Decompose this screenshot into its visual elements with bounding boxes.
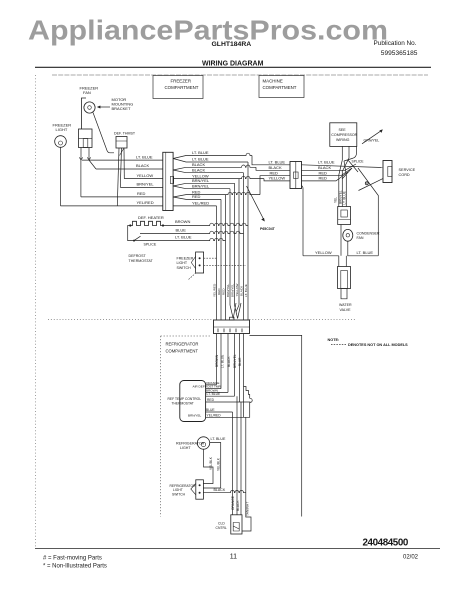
wire BLACK to splice knot: [302, 164, 357, 170]
svg-text:BLACK: BLACK: [214, 488, 226, 492]
motor mounting bracket label: [112, 97, 134, 111]
wire RED lower to splice knot: [302, 172, 349, 181]
lower vertical wire BLACK: [227, 334, 231, 393]
cold control drop wire ORANGE: [231, 412, 235, 515]
svg-text:DEF. THMST: DEF. THMST: [114, 131, 136, 135]
freezer light switch dashed wire lower: [204, 264, 246, 266]
svg-text:YEL/RED: YEL/RED: [192, 200, 209, 205]
thermostat pin wire ORANGE: [206, 381, 220, 385]
lower vertical wire YEL/RED: [243, 334, 245, 418]
svg-text:BRACKET: BRACKET: [112, 106, 131, 111]
wire row YELLOW left: [124, 173, 163, 179]
svg-text:WIRING: WIRING: [336, 138, 350, 142]
machine connector J2: [290, 162, 302, 189]
svg-text:FAN: FAN: [83, 90, 91, 95]
water valve body: [338, 267, 351, 289]
publication number: [374, 40, 418, 57]
svg-text:RED: RED: [222, 288, 226, 295]
defrost thermostat body: [116, 137, 127, 149]
svg-text:YEL/BLK: YEL/BLK: [216, 457, 220, 471]
freezer fan lead wire 2: [87, 148, 96, 170]
svg-text:LT. BLUE: LT. BLUE: [175, 235, 192, 240]
cold control label: [216, 522, 227, 531]
refrigerator light wire bottom: [203, 449, 213, 483]
harness vertical wire 4 BRN/YEL: [229, 189, 231, 305]
machine box chamfer diagonal: [358, 168, 378, 256]
wire BLACK from light switch: [203, 488, 245, 493]
harness wire labels above connector: [212, 283, 248, 297]
left border dotted: [35, 75, 37, 548]
refrigerator light lamp: [197, 437, 209, 449]
fanout wire YEL/RED: [173, 200, 216, 206]
svg-text:CONDENSER: CONDENSER: [357, 232, 380, 236]
svg-text:COMPARTMENT: COMPARTMENT: [165, 85, 199, 90]
svg-text:BROWN: BROWN: [215, 354, 219, 367]
wire RED to splice knot: [302, 168, 353, 176]
refrigerator compartment dashed border vertical: [160, 336, 162, 517]
junction arrows into lower connector: [230, 303, 241, 319]
model number GLHT184RA: [212, 41, 252, 48]
svg-text:BRN/YEL: BRN/YEL: [137, 182, 155, 187]
svg-text:LIGHT: LIGHT: [173, 488, 183, 492]
wire row BRN/YEL left: [120, 182, 163, 188]
svg-text:FREEZER: FREEZER: [171, 78, 192, 83]
defrost thermostat label: [114, 131, 136, 135]
staircase wire BLACK to machine connector: [256, 167, 290, 170]
svg-text:BLACK: BLACK: [269, 165, 282, 170]
motor mounting bracket arrow: [97, 106, 110, 109]
freezer light label: [53, 123, 72, 133]
svg-text:REFRIGERATOR: REFRIGERATOR: [166, 342, 199, 347]
condenser fan motor: [343, 229, 353, 241]
footer legend: [43, 556, 107, 570]
freezer light switch dashed tail: [189, 273, 197, 280]
ground symbol dot: [365, 182, 368, 185]
svg-text:BRN/YEL: BRN/YEL: [231, 283, 235, 297]
cold control body: [231, 515, 242, 534]
relay wire BRN/YEL: [338, 172, 342, 207]
wire BLUE: [140, 227, 244, 233]
thermostat pin wire RED2: [206, 398, 251, 402]
fan to bottom wire: [347, 241, 349, 256]
lower vertical wire BLUE: [238, 334, 242, 403]
svg-text:LT. BLUE: LT. BLUE: [357, 250, 374, 255]
svg-text:# = Fast-moving Parts: # = Fast-moving Parts: [43, 556, 102, 562]
svg-text:ORANGE: ORANGE: [231, 496, 235, 510]
wire LT.BLUE to service cord: [302, 165, 384, 168]
svg-text:AppliancePartsPros.com: AppliancePartsPros.com: [28, 15, 388, 46]
svg-text:02/02: 02/02: [403, 555, 419, 561]
refrigerator light wire right: [203, 443, 220, 489]
fanout pair RED: [173, 189, 260, 199]
defrost thermostat lower label: [129, 254, 154, 263]
title rule: [35, 66, 431, 68]
thermostat pin wire LT.BLUE2: [206, 392, 235, 396]
svg-text:BRN/YEL: BRN/YEL: [226, 283, 230, 297]
fanout pair LT.BLUE: [173, 150, 252, 162]
water valve stem: [341, 289, 347, 299]
svg-text:BRN/YEL: BRN/YEL: [233, 354, 237, 368]
svg-text:VALVE: VALVE: [340, 308, 352, 312]
wire row YEL/RED left: [61, 200, 163, 206]
svg-text:CNTRL: CNTRL: [216, 526, 227, 530]
thermostat pin wire BLUE2: [206, 408, 233, 412]
svg-text:RED: RED: [207, 398, 215, 402]
svg-text:BLUE: BLUE: [238, 358, 242, 366]
staircase wire RED to machine connector: [260, 176, 290, 195]
defrost thermostat lead to BRN/YEL row: [120, 148, 121, 187]
service cord label: [399, 168, 416, 177]
service cord lower diagonal wire: [359, 179, 384, 191]
svg-text:LIGHT: LIGHT: [56, 127, 68, 132]
svg-text:240484500: 240484500: [363, 538, 409, 549]
wire row LT.BLUE left: [82, 154, 163, 160]
svg-text:FAN: FAN: [357, 236, 364, 240]
footer part number 240484500: [363, 538, 409, 549]
freezer light switch label: [177, 256, 194, 270]
fanout pair BRN/YEL: [173, 178, 234, 189]
note text: [328, 338, 409, 347]
svg-text:SPLICE: SPLICE: [352, 160, 365, 164]
footer page number 11: [230, 554, 237, 561]
refrigerator compartment dashed border top: [161, 335, 210, 337]
lower vertical wire BRN/YEL: [233, 334, 237, 397]
svg-text:REFRIGERATOR: REFRIGERATOR: [176, 442, 205, 446]
svg-text:Publication No.: Publication No.: [374, 40, 417, 47]
callout arrow: [247, 186, 265, 222]
svg-text:LT. BLUE: LT. BLUE: [318, 159, 335, 164]
machine box bottom wire left YELLOW: [303, 250, 339, 256]
footer date 02/02: [403, 555, 419, 561]
svg-text:BLACK: BLACK: [236, 500, 240, 511]
svg-text:LT. BLUE: LT. BLUE: [192, 150, 209, 155]
service cord plug: [383, 161, 392, 183]
svg-text:YEL/BLK: YEL/BLK: [209, 456, 213, 470]
lower vertical wire LT.BLUE: [220, 334, 224, 389]
defrost heater left leg wire: [128, 226, 131, 241]
relay to fan wire: [340, 225, 342, 256]
compressor relay overload: [338, 207, 351, 225]
refrigerator light LT.BLUE label: [211, 437, 227, 441]
splice switch: [133, 236, 141, 241]
compartment separator dotted line left: [48, 319, 214, 321]
svg-text:YELLOW: YELLOW: [315, 250, 332, 255]
harness vertical wire 2 RED: [220, 199, 222, 320]
harness vertical wire 5 BRN/YEL: [234, 183, 236, 305]
svg-text:LT. BLUE: LT. BLUE: [136, 154, 153, 159]
title WIRING DIAGRAM: [202, 60, 264, 67]
harness vertical wire 8 LT.BLUE: [247, 162, 249, 320]
thermostat pin wire YEL/RED2: [188, 413, 246, 417]
splice knot crossing wires: [342, 160, 358, 179]
svg-text:RED: RED: [217, 288, 221, 295]
watermark AppliancePartsPros.com: [28, 15, 388, 46]
svg-text:DEF. HEATER: DEF. HEATER: [138, 215, 164, 220]
bottom footer rule: [35, 548, 440, 550]
svg-text:LT. BLUE: LT. BLUE: [244, 284, 248, 297]
refrigerator compartment label: [166, 342, 199, 354]
freezer fan lead wire to LT.BLUE row: [79, 148, 82, 197]
svg-text:BRN/YEL: BRN/YEL: [192, 184, 210, 189]
svg-text:LT. BLUE: LT. BLUE: [207, 392, 221, 396]
svg-text:FREEZER: FREEZER: [177, 256, 194, 260]
svg-text:RED: RED: [137, 191, 146, 196]
top border dashed: [52, 74, 428, 76]
svg-text:LT. BLUE: LT. BLUE: [192, 157, 209, 162]
svg-text:YELLOW: YELLOW: [137, 173, 154, 178]
staircase wire YELLOW to machine connector: [264, 179, 290, 181]
svg-text:GRN/YEL: GRN/YEL: [364, 138, 380, 142]
freezer light switch dashed wire upper: [204, 257, 217, 259]
relay wire LT.BLUE: [343, 175, 347, 207]
svg-text:WIRING DIAGRAM: WIRING DIAGRAM: [202, 60, 264, 67]
freezer light wire down to YEL/RED row: [60, 147, 62, 206]
cold control drop wire TAN/WHT: [242, 417, 251, 531]
main harness connector J1: [163, 152, 174, 210]
svg-text:11: 11: [230, 554, 237, 561]
cold control drop wire BRN/YEL2: [240, 402, 242, 515]
harness vertical wire 1 YEL/RED: [216, 206, 218, 320]
svg-text:5995365185: 5995365185: [381, 50, 418, 57]
ref thermostat box: [180, 381, 206, 422]
cold control drop wire BLACK: [236, 396, 240, 515]
svg-text:DEFROST: DEFROST: [129, 254, 147, 258]
svg-text:YEL/RED: YEL/RED: [212, 283, 216, 297]
lower harness connector J3: [214, 317, 250, 333]
svg-text:REF TEMP CONTROL: REF TEMP CONTROL: [168, 397, 202, 401]
svg-text:LT. BLUE: LT. BLUE: [211, 437, 227, 441]
machine connector labels left: [269, 159, 286, 180]
machine box left wire: [302, 186, 304, 256]
svg-text:WATER: WATER: [339, 303, 352, 307]
thermostat pin wire BROWN2: [206, 388, 228, 392]
svg-text:* = Non-Illustrated Parts: * = Non-Illustrated Parts: [43, 564, 107, 570]
freezer fan connector plug: [79, 129, 93, 148]
compressor box lead 3 hook: [344, 146, 357, 161]
svg-text:LT. BLUE: LT. BLUE: [269, 159, 286, 164]
refrigerator light switch label: [170, 484, 197, 497]
svg-text:SERVICE: SERVICE: [399, 168, 416, 172]
ref thermostat label: [168, 397, 202, 406]
svg-text:COMPARTMENT: COMPARTMENT: [166, 348, 199, 353]
defrost heater label: [138, 215, 164, 220]
svg-text:REFRIGERATOR: REFRIGERATOR: [170, 484, 197, 488]
wire row BLACK left: [96, 163, 163, 169]
freezer fan label: [80, 86, 99, 96]
svg-text:BLACK: BLACK: [240, 285, 244, 296]
svg-text:CORD: CORD: [399, 173, 410, 177]
condenser fan label: [357, 232, 380, 241]
harness vertical wire 3 RED: [225, 195, 227, 320]
svg-text:P65C04T: P65C04T: [260, 227, 276, 231]
svg-text:SWITCH: SWITCH: [172, 493, 186, 497]
compressor box lead 2: [342, 146, 349, 172]
wire LT.BLUE lower: [131, 235, 226, 241]
svg-text:BLUE: BLUE: [206, 408, 215, 412]
defrost heater element: [129, 221, 164, 226]
svg-text:BLACK: BLACK: [192, 162, 205, 167]
compartment separator dotted line right: [250, 319, 357, 321]
freezer fan motor M1: [84, 102, 95, 113]
svg-text:MACHINE: MACHINE: [263, 78, 283, 83]
svg-text:COMPRESSOR: COMPRESSOR: [331, 133, 357, 137]
splice knot label: [352, 160, 365, 164]
svg-text:THERMOSTAT: THERMOSTAT: [172, 401, 194, 405]
wire row RED left: [81, 191, 163, 197]
freezer light switch body: [191, 252, 203, 273]
relay wire YEL: [334, 175, 339, 207]
callout part label: [260, 227, 276, 231]
freezer light lamp: [55, 136, 67, 148]
svg-text:LIGHT: LIGHT: [180, 446, 191, 450]
svg-text:CLD: CLD: [218, 522, 225, 526]
svg-text:BRN/YEL: BRN/YEL: [188, 413, 202, 417]
svg-text:YEL/RED: YEL/RED: [207, 413, 222, 417]
machine connector labels right: [318, 159, 335, 180]
wire BROWN from heater: [163, 219, 248, 226]
svg-text:BROWN: BROWN: [175, 219, 190, 224]
svg-text:LT. BLUE: LT. BLUE: [343, 191, 347, 204]
svg-text:BLACK: BLACK: [227, 356, 231, 367]
freezer fan bracket wire: [82, 98, 87, 129]
staircase wire LT.BLUE to machine connector: [252, 156, 290, 165]
svg-text:NOTE:: NOTE:: [328, 338, 340, 342]
svg-text:BRN/YEL: BRN/YEL: [192, 178, 210, 183]
compressor box lead 1: [339, 146, 343, 175]
harness vertical wire 7 BLACK: [243, 173, 245, 320]
svg-text:BLACK: BLACK: [136, 163, 149, 168]
harness vertical wire 6 YELLOW: [238, 179, 240, 305]
svg-text:YEL: YEL: [334, 197, 338, 203]
refrigerator light switch body: [191, 480, 204, 499]
thermostat pin wire RED/ORG: [193, 385, 222, 389]
svg-text:COMPARTMENT: COMPARTMENT: [263, 85, 297, 90]
svg-text:BLUE: BLUE: [176, 227, 187, 232]
step wires right of thermostat: [244, 387, 253, 418]
defrost thermostat lead to YELLOW row: [120, 148, 125, 179]
svg-text:LT. BLUE: LT. BLUE: [220, 355, 224, 368]
fanout wire YELLOW: [173, 173, 264, 178]
splice label: [144, 243, 157, 247]
svg-text:YEL/RED: YEL/RED: [137, 200, 154, 205]
compressor wiring reference box: [330, 123, 358, 147]
water valve label: [339, 303, 352, 312]
svg-text:LIGHT: LIGHT: [177, 261, 188, 265]
grounding wire GRN/YEL with arrow: [362, 129, 383, 143]
svg-text:SEE: SEE: [339, 128, 347, 132]
water valve leads: [339, 256, 347, 267]
fanout pair BLACK: [173, 162, 256, 173]
lower vertical wire BROWN: [215, 334, 219, 385]
svg-text:SWITCH: SWITCH: [177, 266, 192, 270]
svg-text:DENOTES NOT ON ALL MODELS: DENOTES NOT ON ALL MODELS: [348, 343, 408, 347]
svg-text:YELLOW: YELLOW: [269, 176, 286, 181]
svg-text:SPLICE: SPLICE: [144, 243, 157, 247]
refrigerator compartment right border wire: [250, 335, 302, 516]
freezer compartment label box: [153, 76, 203, 99]
refrigerator light label: [176, 442, 205, 451]
machine box bottom wire right LT.BLUE: [347, 250, 378, 256]
freezer fan motor lead diagonal wire: [93, 113, 114, 153]
svg-text:GLHT184RA: GLHT184RA: [212, 41, 252, 48]
svg-text:THERMOSTAT: THERMOSTAT: [129, 259, 154, 263]
defrost thermostat lead to YEL/RED row: [117, 148, 119, 206]
svg-text:TAN/WHT: TAN/WHT: [246, 502, 250, 516]
machine compartment label box: [259, 76, 304, 98]
svg-text:RED: RED: [319, 176, 328, 181]
svg-text:BLACK: BLACK: [192, 167, 205, 172]
svg-text:YELLOW: YELLOW: [235, 284, 239, 297]
